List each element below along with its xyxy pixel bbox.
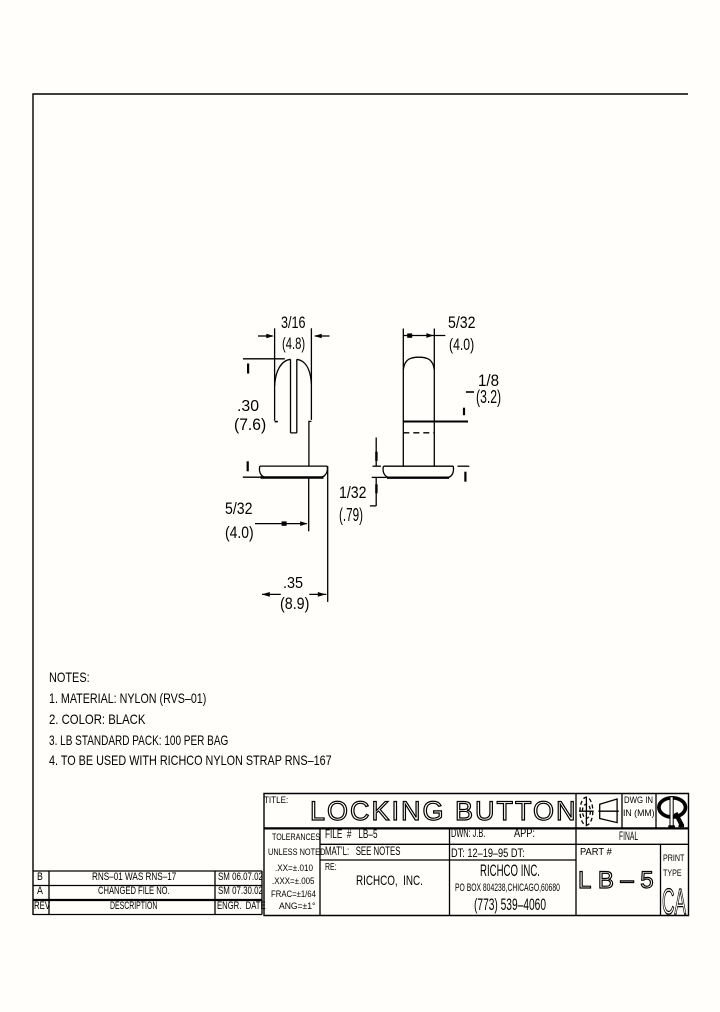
1/32 upper vert <box>375 438 377 466</box>
head left edge / ext line <box>274 328 276 420</box>
flange top right ext <box>458 465 470 467</box>
1/8 top tick <box>466 391 474 393</box>
flange bottom ext left thin <box>243 476 261 478</box>
5/32 stem dim line <box>255 523 307 525</box>
sheet border <box>33 94 688 915</box>
1/8 I tick <box>463 408 465 416</box>
arrow left <box>314 334 322 338</box>
.30 tick top <box>247 364 249 374</box>
right I tick below <box>464 472 466 482</box>
.35 dim left <box>262 593 281 595</box>
flange left corner <box>383 466 388 477</box>
dims left view <box>281 314 305 331</box>
flange bottom thick <box>387 477 449 479</box>
stem ext line <box>308 478 310 532</box>
title block text <box>264 796 288 806</box>
REVISION TABLE bottom-left <box>33 871 262 915</box>
top ext line for .30 <box>243 358 285 360</box>
body right edge <box>433 329 435 467</box>
shoulder line + ext <box>403 421 468 423</box>
1/32 lower vert <box>375 478 377 506</box>
arrow right <box>266 334 274 338</box>
dim line 3/16 right part <box>315 335 330 337</box>
flange right corner <box>448 466 453 477</box>
right prong step + stem <box>309 421 312 466</box>
TITLE BLOCK <box>264 794 689 916</box>
hidden dashed line <box>403 432 434 434</box>
1/32 lower I tick <box>375 484 377 493</box>
dome right arc <box>297 359 312 384</box>
.35 right ext line <box>327 466 329 602</box>
.35 dim right <box>309 593 326 595</box>
flange right corner <box>322 466 328 477</box>
dome arc <box>403 357 434 370</box>
left prong step <box>275 421 278 423</box>
.30 tick bottom <box>247 461 249 471</box>
dim line 5/32 <box>403 335 445 337</box>
slot <box>291 359 297 433</box>
head right edge / ext line <box>310 328 312 420</box>
blob arrow <box>282 521 287 525</box>
flange left corner <box>259 466 264 477</box>
richco logo <box>659 797 686 828</box>
flange top left ext <box>373 465 381 467</box>
body left edge <box>402 329 404 467</box>
flange bottom left ext <box>372 476 387 478</box>
flange top <box>260 465 328 467</box>
dim line 3/16 left part <box>258 335 273 337</box>
third angle projection symbol <box>580 797 593 825</box>
dome left arc <box>275 359 291 386</box>
1/32 leader foot <box>370 505 376 507</box>
dims right view <box>448 314 475 331</box>
notes <box>49 670 90 684</box>
1/32 upper I tick <box>375 452 377 461</box>
right arrow <box>300 521 307 526</box>
revision table text <box>37 872 43 883</box>
flange top <box>383 465 453 467</box>
flange bottom thick <box>261 476 324 478</box>
